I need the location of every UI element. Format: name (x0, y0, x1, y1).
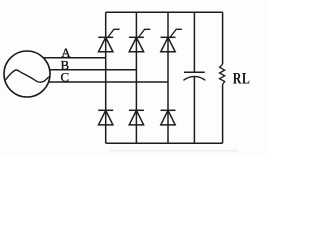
svg-text:C: C (61, 70, 70, 85)
svg-text:RL: RL (233, 70, 250, 88)
